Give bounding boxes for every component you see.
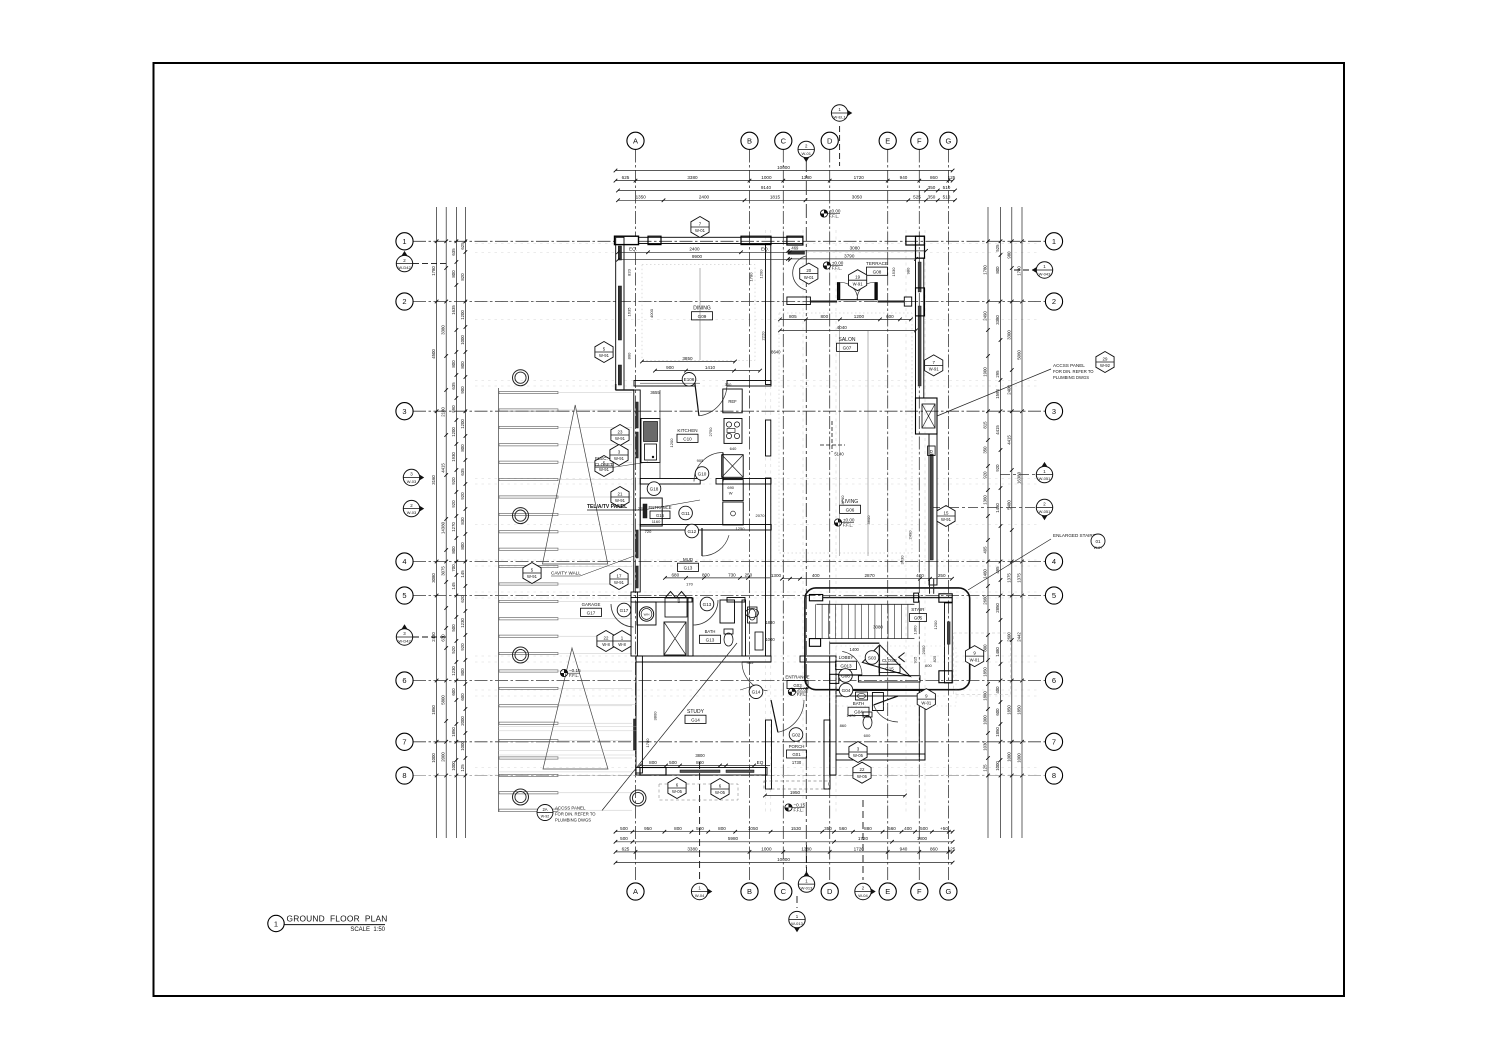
svg-text:19: 19 xyxy=(855,275,860,280)
section marker bottom W-013 lower xyxy=(789,896,805,932)
svg-text:5060: 5060 xyxy=(1017,350,1022,360)
svg-text:800: 800 xyxy=(627,352,632,359)
svg-text:W-91: W-91 xyxy=(599,467,610,472)
svg-text:4415: 4415 xyxy=(995,425,1000,435)
svg-text:400: 400 xyxy=(904,826,912,831)
door lobby arc xyxy=(842,651,862,675)
dim salon 5140 cross xyxy=(820,421,845,457)
svg-text:3300: 3300 xyxy=(1006,330,1011,340)
svg-text:W-013: W-013 xyxy=(791,921,803,926)
svg-text:±0.00: ±0.00 xyxy=(843,517,855,522)
bath g13 east wall xyxy=(742,600,746,656)
svg-text:1930: 1930 xyxy=(451,452,456,462)
svg-text:560: 560 xyxy=(839,826,847,831)
svg-text:800: 800 xyxy=(451,546,456,554)
svg-text:800: 800 xyxy=(674,826,682,831)
svg-text:940: 940 xyxy=(900,175,908,180)
svg-text:G01: G01 xyxy=(792,752,801,757)
svg-text:825: 825 xyxy=(932,655,937,662)
french door right terrace xyxy=(857,282,874,299)
svg-text:800: 800 xyxy=(702,572,710,577)
section marker left mid2 W-03 xyxy=(403,500,424,516)
svg-text:250: 250 xyxy=(938,573,946,578)
section cut line x806 xyxy=(805,158,807,877)
svg-text:800: 800 xyxy=(696,760,704,765)
svg-text:635: 635 xyxy=(451,248,456,256)
svg-text:G013: G013 xyxy=(840,663,852,668)
wall east salon glazing upper xyxy=(916,258,924,398)
svg-text:1200: 1200 xyxy=(451,427,456,437)
section marker right row1 W-043 xyxy=(1014,262,1053,278)
svg-text:2000: 2000 xyxy=(460,716,465,726)
svg-text:5: 5 xyxy=(1052,591,1056,600)
svg-text:W-013: W-013 xyxy=(801,886,813,891)
svg-text:1000: 1000 xyxy=(761,846,772,851)
door tag G06 xyxy=(839,669,853,683)
svg-text:680: 680 xyxy=(671,572,679,577)
svg-text:1800: 1800 xyxy=(917,836,928,841)
svg-text:980: 980 xyxy=(1006,251,1011,259)
kitchen shaft xbox xyxy=(722,455,744,478)
svg-text:14380: 14380 xyxy=(441,521,446,534)
svg-text:1900: 1900 xyxy=(983,367,988,377)
svg-text:4000: 4000 xyxy=(649,308,654,318)
svg-text:1000: 1000 xyxy=(431,753,436,763)
dimension chain right mid xyxy=(1006,207,1013,838)
svg-text:3600: 3600 xyxy=(866,515,871,525)
hex tag 22/W-05 at 862,772 xyxy=(853,762,871,783)
svg-text:350: 350 xyxy=(928,195,936,200)
svg-text:2A: 2A xyxy=(542,807,547,812)
svg-text:2850: 2850 xyxy=(995,603,1000,613)
svg-text:800: 800 xyxy=(451,270,456,278)
dimension chain top 9140 xyxy=(616,185,957,192)
door tag G14 xyxy=(749,685,763,699)
svg-text:3655: 3655 xyxy=(650,390,660,395)
svg-text:4710: 4710 xyxy=(840,495,845,505)
svg-text:5: 5 xyxy=(402,591,406,600)
section marker top W-EL1 xyxy=(831,105,852,166)
door tag E106 xyxy=(682,373,696,387)
svg-text:500: 500 xyxy=(451,624,456,632)
svg-text:DINING: DINING xyxy=(693,306,711,312)
grid line row 4 xyxy=(413,561,1046,563)
bath g13 sink xyxy=(746,609,759,618)
dimension chain left inner xyxy=(451,207,458,838)
dim lobby 1400 xyxy=(850,647,860,652)
svg-text:16380: 16380 xyxy=(1017,471,1022,484)
wall north-east pier xyxy=(906,236,925,258)
svg-text:1400: 1400 xyxy=(850,647,860,652)
stairs chevron xyxy=(899,653,905,662)
svg-text:1635: 1635 xyxy=(451,305,456,315)
closet folding doors xyxy=(665,592,687,618)
svg-text:3080: 3080 xyxy=(850,245,861,250)
svg-text:±0.00: ±0.00 xyxy=(797,687,809,692)
svg-text:635: 635 xyxy=(460,468,465,476)
svg-text:W-05: W-05 xyxy=(857,774,868,779)
svg-text:CLOSET: CLOSET xyxy=(595,462,613,467)
svg-text:PLUMBING DWGS: PLUMBING DWGS xyxy=(555,818,591,823)
svg-text:820: 820 xyxy=(460,273,465,281)
svg-text:W-051: W-051 xyxy=(1039,509,1051,514)
svg-text:1375: 1375 xyxy=(1017,573,1022,583)
stove xyxy=(724,419,742,444)
svg-text:A: A xyxy=(633,887,638,896)
dim terrace 3790 xyxy=(786,253,918,260)
grid bubble column E top xyxy=(879,132,896,149)
svg-text:D: D xyxy=(827,887,833,896)
svg-text:W-97: W-97 xyxy=(1094,546,1103,550)
hex tag 29/W-92 at 1105,362 xyxy=(1096,352,1114,373)
svg-text:900: 900 xyxy=(666,365,674,370)
svg-text:600: 600 xyxy=(451,688,456,696)
svg-text:640: 640 xyxy=(730,446,737,451)
section marker left row6 W-D42 xyxy=(396,624,446,645)
hex tag 23/W-91 at 620,435 xyxy=(611,425,629,446)
svg-text:275: 275 xyxy=(638,507,644,511)
deck edge line xyxy=(498,388,500,812)
svg-text:730: 730 xyxy=(728,572,736,577)
svg-text:1470: 1470 xyxy=(847,713,857,718)
section marker bottom W-04 right xyxy=(855,800,876,900)
annotation elec closet xyxy=(595,456,648,468)
level marker living xyxy=(834,517,855,527)
annotation access panel bottom left xyxy=(537,643,737,823)
svg-text:W-92: W-92 xyxy=(1100,363,1111,368)
svg-text:2180: 2180 xyxy=(441,407,446,417)
level marker driveway xyxy=(560,668,581,678)
grid line column F xyxy=(918,150,920,884)
svg-text:G04: G04 xyxy=(854,709,863,714)
dimension chain bottom 5980 xyxy=(614,836,955,843)
refrigerator xyxy=(723,389,742,413)
door tag G13 xyxy=(700,597,714,611)
svg-text:4: 4 xyxy=(1052,557,1056,566)
dimension chain left outer xyxy=(431,207,438,838)
grid bubble row 3 right xyxy=(1045,403,1062,420)
dimension chain bottom overall 10000 xyxy=(614,857,955,864)
wall garage bath divider xyxy=(688,598,693,656)
svg-text:920: 920 xyxy=(451,477,456,485)
svg-text:800: 800 xyxy=(460,361,465,369)
svg-text:1880: 1880 xyxy=(983,691,988,701)
svg-text:5800: 5800 xyxy=(441,695,446,705)
grid bubble row 4 right xyxy=(1045,553,1062,570)
svg-text:1: 1 xyxy=(402,237,406,246)
access panel shaft east xyxy=(916,398,938,434)
svg-text:G: G xyxy=(945,887,951,896)
svg-text:LOBBY: LOBBY xyxy=(839,655,854,660)
door tag G04 xyxy=(839,683,853,697)
svg-text:125: 125 xyxy=(948,175,956,180)
bath g04 labels xyxy=(840,713,857,728)
svg-text:W-91: W-91 xyxy=(941,517,952,522)
laundry machines xyxy=(723,480,743,525)
svg-text:W-91: W-91 xyxy=(527,574,538,579)
svg-text:860: 860 xyxy=(930,846,938,851)
grid bubble row 1 right xyxy=(1045,233,1062,250)
svg-text:500: 500 xyxy=(620,826,628,831)
grid bubble column A top xyxy=(627,132,644,149)
svg-text:±0.00: ±0.00 xyxy=(832,260,844,265)
svg-text:3380: 3380 xyxy=(687,846,698,851)
svg-text:W-043: W-043 xyxy=(1039,271,1051,276)
svg-text:GARAGE: GARAGE xyxy=(582,602,601,607)
dimension chain right outer xyxy=(1017,207,1024,838)
svg-text:1850: 1850 xyxy=(1006,705,1011,715)
svg-text:350: 350 xyxy=(928,185,936,190)
svg-text:3080: 3080 xyxy=(873,625,883,630)
level marker entrance xyxy=(788,687,809,697)
svg-text:800: 800 xyxy=(460,668,465,676)
svg-text:500: 500 xyxy=(620,836,628,841)
grid line row 7 xyxy=(413,741,1046,743)
dim terrace 3080 xyxy=(786,245,928,252)
svg-text:600: 600 xyxy=(925,663,932,668)
dim kitchen 3655 xyxy=(640,382,700,384)
svg-text:F.F.L.: F.F.L. xyxy=(794,808,804,813)
french door left terrace xyxy=(840,282,857,299)
svg-text:FOR DIN. REFER TO: FOR DIN. REFER TO xyxy=(1053,369,1094,374)
svg-text:1350: 1350 xyxy=(636,195,647,200)
svg-text:3080: 3080 xyxy=(431,573,436,583)
wall north exterior xyxy=(615,236,804,245)
dimension chain right inner xyxy=(995,207,1002,838)
svg-text:800: 800 xyxy=(460,542,465,550)
svg-text:600: 600 xyxy=(460,693,465,701)
svg-text:PORCH: PORCH xyxy=(789,744,805,749)
grid bubble row 8 left xyxy=(396,767,413,784)
svg-text:G11: G11 xyxy=(681,511,690,516)
svg-text:EQ.: EQ. xyxy=(629,247,637,252)
svg-text:C: C xyxy=(781,887,787,896)
grid bubble row 6 right xyxy=(1045,672,1062,689)
svg-text:920: 920 xyxy=(460,643,465,651)
svg-text:23: 23 xyxy=(618,429,623,434)
svg-text:3075: 3075 xyxy=(441,566,446,576)
hex tag 5/W-91 at 532,573 xyxy=(523,563,541,584)
svg-text:1460: 1460 xyxy=(983,569,988,579)
svg-text:300: 300 xyxy=(725,382,732,387)
svg-text:17: 17 xyxy=(617,573,622,578)
grid line row 1 xyxy=(413,240,1046,242)
wall porch west xyxy=(766,720,772,789)
svg-text:4415: 4415 xyxy=(1006,435,1011,445)
svg-text:2442: 2442 xyxy=(1017,632,1022,642)
dimension chain top overall 10000 xyxy=(614,165,955,172)
wall west jog xyxy=(616,384,634,390)
svg-text:1030: 1030 xyxy=(983,741,988,751)
svg-text:E: E xyxy=(885,887,890,896)
dim study windows xyxy=(638,760,770,767)
bath g13 door arc xyxy=(693,600,718,625)
door tag G12 xyxy=(685,524,699,538)
hex tag 7/W-91 at 933,365 xyxy=(925,355,943,376)
grid line column G xyxy=(947,150,949,884)
svg-text:G13: G13 xyxy=(703,602,712,607)
svg-text:KITCHEN: KITCHEN xyxy=(677,428,697,433)
svg-text:01: 01 xyxy=(1095,539,1101,544)
kitchen counter line xyxy=(659,390,661,478)
svg-text:6: 6 xyxy=(402,676,406,685)
svg-text:E: E xyxy=(885,136,890,145)
svg-text:1850: 1850 xyxy=(995,727,1000,737)
svg-text:3050: 3050 xyxy=(852,195,863,200)
svg-text:1815: 1815 xyxy=(770,195,781,200)
svg-text:600: 600 xyxy=(886,314,894,319)
svg-text:G14: G14 xyxy=(752,690,761,695)
level marker porch south xyxy=(785,802,806,812)
svg-text:625: 625 xyxy=(460,242,465,250)
svg-text:1360: 1360 xyxy=(983,495,988,505)
svg-text:1270: 1270 xyxy=(451,522,456,532)
svg-text:3: 3 xyxy=(402,407,406,416)
svg-text:400: 400 xyxy=(916,573,924,578)
svg-text:10000: 10000 xyxy=(777,857,790,862)
svg-text:350: 350 xyxy=(983,446,988,454)
svg-text:S03: S03 xyxy=(868,655,877,660)
hex tag 9/W-01 at 926,699 xyxy=(917,689,935,710)
svg-text:G09: G09 xyxy=(698,314,707,319)
column bottom left plan xyxy=(630,790,646,806)
garage washer circle xyxy=(637,602,656,625)
drawing title xyxy=(268,914,388,933)
section marker left row1 W-D42 xyxy=(396,251,446,272)
svg-text:7: 7 xyxy=(402,737,406,746)
section marker right mid2 W-051 xyxy=(1036,499,1052,520)
dim stairs top row xyxy=(771,573,954,580)
svg-text:REF: REF xyxy=(728,399,737,404)
svg-text:G08: G08 xyxy=(873,269,882,274)
wall entrance west xyxy=(640,498,771,530)
svg-text:G17: G17 xyxy=(587,610,596,615)
svg-text:W-EL1: W-EL1 xyxy=(834,114,847,119)
stairs treads and walls xyxy=(805,588,970,690)
svg-text:W-91: W-91 xyxy=(615,498,626,503)
svg-text:B: B xyxy=(747,136,752,145)
dim salon 4040 xyxy=(778,325,918,332)
hex tag 3/W-05 at 858,752 xyxy=(849,742,867,763)
svg-text:2: 2 xyxy=(402,297,406,306)
svg-text:B: B xyxy=(747,887,752,896)
annotation access panel right xyxy=(937,363,1094,416)
svg-text:800: 800 xyxy=(460,444,465,452)
door kitchen north arc xyxy=(699,384,727,416)
svg-text:8640: 8640 xyxy=(771,350,781,355)
level marker top D xyxy=(820,208,841,218)
door study arc xyxy=(742,662,768,691)
grid bubble row 8 right xyxy=(1045,767,1062,784)
svg-text:G06: G06 xyxy=(841,673,850,678)
svg-text:295: 295 xyxy=(995,370,1000,378)
svg-text:5480: 5480 xyxy=(1006,500,1011,510)
svg-text:1850: 1850 xyxy=(1017,705,1022,715)
wall terrace south row2 xyxy=(787,283,925,316)
svg-text:170: 170 xyxy=(686,582,693,587)
svg-text:1200: 1200 xyxy=(933,620,938,630)
wall west study xyxy=(631,592,642,773)
svg-text:W-01: W-01 xyxy=(804,275,815,280)
svg-text:2490: 2490 xyxy=(983,311,988,321)
svg-text:920: 920 xyxy=(460,492,465,500)
wall east south section xyxy=(919,690,925,760)
hex tag 9/W-01 at 974,656 xyxy=(966,646,984,667)
svg-text:1230: 1230 xyxy=(451,666,456,676)
svg-text:1200: 1200 xyxy=(460,310,465,320)
svg-text:EQ: EQ xyxy=(757,760,764,765)
svg-text:600: 600 xyxy=(677,597,681,603)
svg-text:W-05: W-05 xyxy=(715,790,726,795)
svg-text:920: 920 xyxy=(451,500,456,508)
annotation enlarged stairs xyxy=(968,533,1105,590)
kitchen sink unit xyxy=(641,419,660,463)
grid bubble row 7 left xyxy=(396,733,413,750)
svg-text:860: 860 xyxy=(840,723,847,728)
svg-text:W-91: W-91 xyxy=(615,436,626,441)
bath g13 tub xyxy=(720,600,735,623)
hex tag 1/W-8 at 622,641 xyxy=(613,631,631,652)
svg-text:1200: 1200 xyxy=(669,438,674,448)
svg-text:720: 720 xyxy=(645,529,652,534)
svg-text:990: 990 xyxy=(451,405,456,413)
grid bubble column G top xyxy=(940,132,957,149)
bath g04 toilet xyxy=(863,712,872,738)
svg-text:PLUMBING DWGS: PLUMBING DWGS xyxy=(1053,375,1089,380)
svg-text:W-91: W-91 xyxy=(614,580,625,585)
svg-text:600: 600 xyxy=(995,708,1000,716)
svg-text:915: 915 xyxy=(913,656,918,663)
wall bath G04 north xyxy=(836,691,925,697)
wall spine vertical xyxy=(766,244,771,657)
stairs direction triangle xyxy=(862,645,910,677)
svg-text:1000: 1000 xyxy=(983,715,988,725)
svg-text:900: 900 xyxy=(460,386,465,394)
svg-text:W: W xyxy=(729,491,733,496)
dim dining 900 1410 xyxy=(653,365,762,372)
svg-text:350: 350 xyxy=(824,826,832,831)
svg-text:F.F.L.: F.F.L. xyxy=(832,266,842,271)
dimension chain top detail segments xyxy=(616,195,957,202)
svg-text:±0.00: ±0.00 xyxy=(829,208,841,213)
stairs chimney xyxy=(930,578,934,593)
grid bubble row 5 right xyxy=(1045,587,1062,604)
svg-text:22: 22 xyxy=(860,767,865,772)
dim salon interior vert xyxy=(700,268,868,556)
svg-text:G: G xyxy=(945,136,951,145)
room label bath g13 xyxy=(700,629,721,643)
svg-text:2750: 2750 xyxy=(708,427,713,437)
grid bubble column G bottom xyxy=(940,883,957,900)
wall west dining glazing xyxy=(616,237,624,390)
svg-text:815: 815 xyxy=(983,421,988,429)
svg-text:21: 21 xyxy=(618,491,623,496)
door tag G02 xyxy=(789,728,803,742)
svg-text:1160: 1160 xyxy=(652,519,661,524)
svg-text:8: 8 xyxy=(402,771,406,780)
svg-text:G06: G06 xyxy=(846,507,855,512)
svg-text:1850: 1850 xyxy=(431,705,436,715)
svg-text:G04: G04 xyxy=(842,688,851,693)
svg-text:G02: G02 xyxy=(792,732,801,737)
grid bubble column A bottom xyxy=(627,883,644,900)
grid bubble column D top xyxy=(821,132,838,149)
grid line row 3 xyxy=(413,410,1046,412)
bath g04 sink xyxy=(856,692,868,700)
svg-text:250: 250 xyxy=(745,572,753,577)
grid line row 2 xyxy=(413,301,1046,303)
grid bubble row 7 right xyxy=(1045,733,1062,750)
